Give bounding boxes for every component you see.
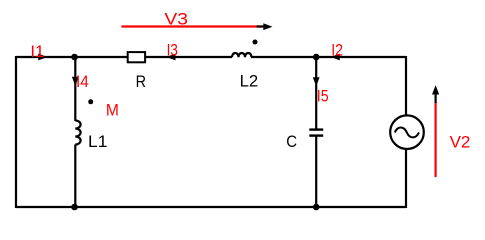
wire branch L1 lower (74, 145, 76, 209)
wire top middle segment (146, 56, 232, 58)
capacitor C (309, 130, 323, 136)
junction node top-left (71, 54, 78, 61)
voltage arrow V2 (432, 85, 470, 177)
wire branch C lower (315, 137, 317, 208)
wire right edge upper (405, 56, 407, 115)
junction node bottom-left (71, 204, 78, 211)
current arrow I3 (166, 42, 178, 61)
coupling dot for L2 (253, 40, 258, 45)
wire top left segment (16, 56, 127, 58)
wire branch L1 upper (74, 57, 76, 121)
coupling dot for L1 (88, 99, 93, 104)
svg-text:V3: V3 (164, 10, 188, 28)
wire branch C upper (315, 57, 317, 129)
voltage arrow V3 (121, 10, 272, 30)
wire right edge lower (405, 150, 407, 208)
svg-text:L2: L2 (240, 73, 259, 91)
svg-text:C: C (286, 133, 297, 151)
resistor R (128, 52, 145, 62)
inductor L1 (75, 121, 80, 145)
inductor L2 (232, 53, 252, 57)
svg-text:L1: L1 (88, 133, 107, 151)
current arrow I4 (72, 73, 89, 91)
svg-text:V2: V2 (450, 133, 471, 151)
current arrow I2 (331, 41, 343, 60)
wire top right segment (251, 56, 406, 58)
svg-text:I2: I2 (331, 41, 343, 59)
svg-text:R: R (136, 73, 146, 91)
svg-text:I5: I5 (317, 88, 329, 106)
junction node bottom-middle (313, 204, 320, 211)
junction node top-middle (313, 54, 320, 61)
wire left edge (15, 56, 17, 208)
wire bottom (16, 206, 406, 208)
voltage source V2 (circle with sine) (390, 115, 424, 149)
svg-text:I4: I4 (76, 73, 89, 91)
svg-text:I3: I3 (167, 42, 178, 60)
svg-text:M: M (106, 102, 119, 120)
current arrow I1 (30, 43, 47, 61)
current arrow I5 (313, 77, 329, 105)
svg-text:I1: I1 (30, 43, 44, 61)
